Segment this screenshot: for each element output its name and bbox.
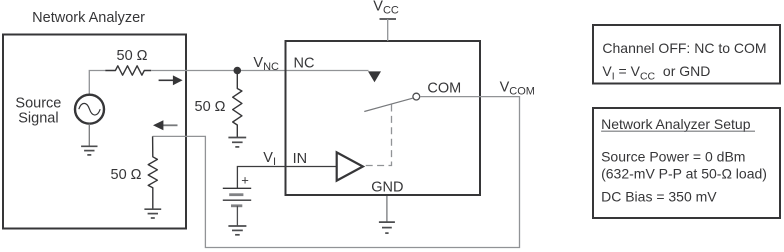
svg-text:NC: NC — [294, 55, 315, 71]
wire from R1 to NC pin of switch — [151, 70, 368, 72]
svg-text:GND: GND — [371, 179, 403, 195]
svg-text:Source: Source — [15, 96, 61, 112]
NC switch throw contact (filled triangle) — [368, 71, 381, 82]
svg-text:(632-mV P-P at 50-Ω load): (632-mV P-P at 50-Ω load) — [601, 165, 767, 181]
GND pin wire — [386, 196, 388, 222]
svg-text:50 Ω: 50 Ω — [195, 99, 226, 115]
wire battery negative to ground — [236, 206, 238, 226]
svg-text:+: + — [241, 173, 249, 188]
switch blade (pole) — [364, 98, 412, 111]
wire COM to VCOM and return loop — [153, 97, 520, 248]
svg-text:Network Analyzer Setup: Network Analyzer Setup — [601, 116, 751, 132]
wire from source top to resistor R1 — [89, 71, 106, 96]
dashed actuation line from driver to blade — [364, 105, 392, 166]
battery V I plates — [223, 187, 251, 189]
svg-text:IN: IN — [293, 151, 308, 167]
arrow left (return current direction) — [163, 124, 178, 126]
ground below battery — [228, 225, 246, 227]
svg-text:Channel OFF: NC to COM: Channel OFF: NC to COM — [602, 40, 766, 56]
svg-text:Network Analyzer: Network Analyzer — [32, 10, 145, 26]
svg-text:COM: COM — [427, 81, 461, 97]
info box: network analyzer setup — [593, 108, 780, 218]
svg-text:Signal: Signal — [18, 111, 58, 127]
resistor R3 50 ohm vertical (COM load) — [148, 136, 157, 209]
svg-text:DC Bias = 350 mV: DC Bias = 350 mV — [601, 188, 717, 204]
ground below GND pin — [379, 221, 395, 223]
VCC supply terminal — [380, 18, 397, 20]
ground below R3 — [144, 208, 161, 210]
svg-text:50 Ω: 50 Ω — [111, 167, 142, 183]
svg-text:Source Power = 0 dBm: Source Power = 0 dBm — [601, 149, 745, 165]
svg-text:50 Ω: 50 Ω — [117, 48, 148, 64]
resistor R2 50 ohm vertical at VNC — [233, 74, 242, 138]
switch IC box U1 — [286, 41, 481, 195]
resistor R1 50 ohm horizontal — [105, 66, 151, 75]
COM contact circle — [413, 93, 420, 100]
ground below source — [88, 124, 90, 147]
ground below R2 — [228, 137, 246, 139]
node VNC junction dot — [234, 67, 242, 75]
source V1 (AC sine source) — [75, 95, 104, 124]
wire battery to IN buffer — [237, 167, 336, 189]
arrow right (source current direction) — [159, 79, 174, 81]
buffer driver U1a — [337, 152, 363, 180]
info box: channel off — [593, 25, 780, 84]
network analyzer box — [3, 35, 186, 229]
